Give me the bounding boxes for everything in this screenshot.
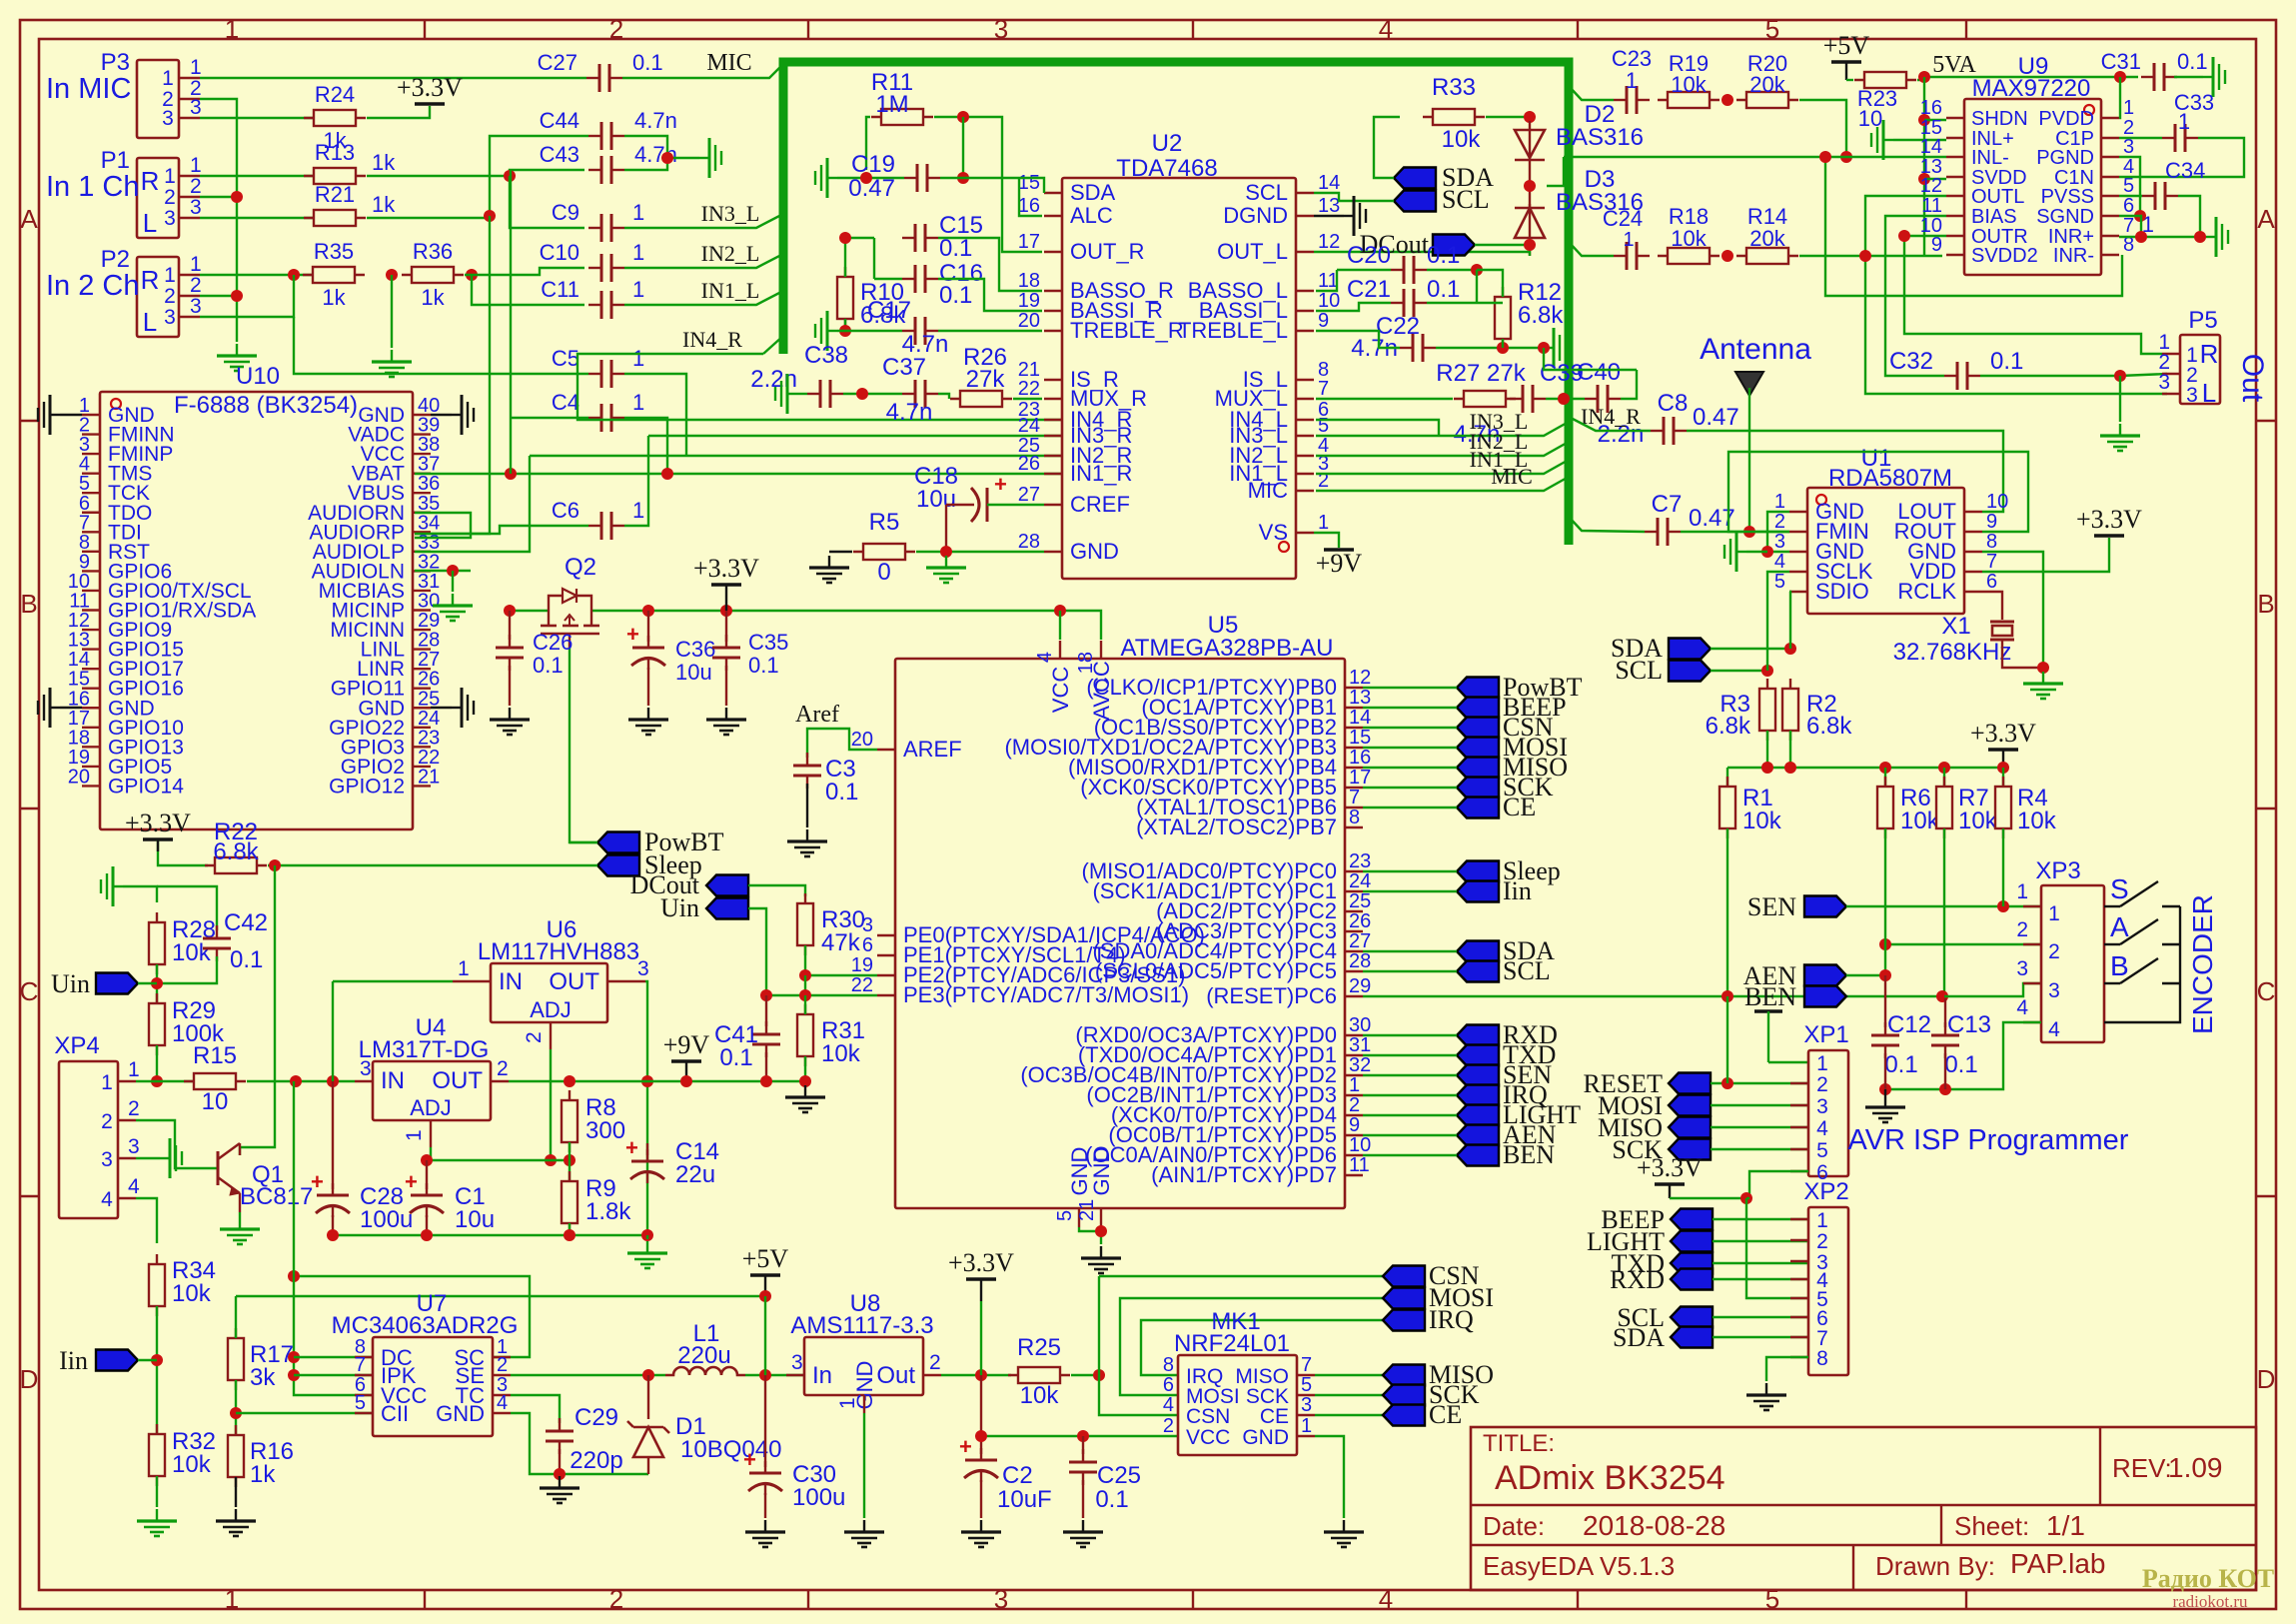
- svg-text:4.7n: 4.7n: [634, 108, 677, 133]
- svg-text:1k: 1k: [421, 285, 445, 310]
- resistor R29: [156, 993, 158, 1055]
- capacitor C13: [1944, 998, 1946, 1027]
- junction: [1784, 762, 1796, 774]
- wire R35/R36 mid to ground: [391, 275, 393, 348]
- svg-text:L: L: [143, 307, 157, 337]
- capacitor C41: [765, 995, 767, 1026]
- junction: [1722, 250, 1733, 262]
- resistor R18: [1658, 255, 1720, 257]
- resistor R33: [1423, 116, 1485, 118]
- svg-text:1: 1: [1774, 491, 1785, 513]
- wire +3.3V to XP2 feed: [1669, 1184, 1671, 1198]
- wire PC6 long row to encoder area: [1363, 995, 1942, 997]
- svg-text:2: 2: [2016, 918, 2028, 941]
- resistor R11: [871, 116, 933, 118]
- svg-text:BEN: BEN: [1503, 1140, 1555, 1169]
- wire OUTR down to P5 pin1: [1904, 236, 2162, 354]
- svg-text:C26: C26: [533, 630, 573, 655]
- svg-text:R13: R13: [315, 140, 355, 165]
- junction: [386, 269, 398, 281]
- capacitor C14: [646, 1143, 648, 1155]
- svg-text:OUT_L: OUT_L: [1217, 239, 1288, 264]
- svg-text:4: 4: [1816, 1117, 1828, 1140]
- svg-text:RXD: RXD: [1610, 1265, 1665, 1294]
- wire rail to ground: [646, 1235, 648, 1239]
- svg-text:LM117HVH883: LM117HVH883: [478, 938, 639, 965]
- wire SGND to INR+ row: [2119, 216, 2141, 237]
- svg-text:26: 26: [1349, 910, 1371, 932]
- svg-text:1: 1: [225, 1584, 239, 1614]
- encoder switch B: [2104, 982, 2120, 984]
- svg-text:2: 2: [609, 1584, 623, 1614]
- svg-text:2: 2: [164, 285, 176, 308]
- connector XP1: [1808, 1050, 1848, 1176]
- net flag SDA: [1394, 168, 1436, 189]
- ground: [391, 350, 393, 362]
- net flag BEN: [1457, 1145, 1499, 1166]
- diode D1 10BQ040: [647, 1375, 649, 1419]
- IC U7 MC34063ADR2G: [373, 1337, 493, 1436]
- wire GND pin4 to bottom row: [511, 1413, 648, 1474]
- junction: [680, 1075, 692, 1087]
- svg-text:F-6888 (BK3254): F-6888 (BK3254): [174, 392, 358, 419]
- svg-text:C24: C24: [1603, 206, 1643, 231]
- svg-text:4: 4: [2016, 996, 2028, 1019]
- svg-text:R35: R35: [314, 239, 354, 264]
- wire XP1 pin1: [1768, 1061, 1808, 1063]
- ground: [239, 1217, 241, 1229]
- wire BIAS down to C32 row: [1885, 216, 1946, 376]
- svg-text:(SCL0/ADC5/PTCY)PC5: (SCL0/ADC5/PTCY)PC5: [1095, 958, 1337, 983]
- net flag SCL: [1457, 961, 1499, 982]
- wire CE: [1363, 807, 1457, 809]
- wire R25 right to CSN node: [1071, 1374, 1099, 1376]
- wire U6 OUT down right rail: [645, 981, 647, 1235]
- svg-text:IN: IN: [381, 1067, 405, 1094]
- svg-text:AVR ISP Programmer: AVR ISP Programmer: [1848, 1124, 2129, 1156]
- junction: [2194, 231, 2206, 243]
- capacitor C36: [647, 611, 649, 642]
- svg-text:PAP.lab: PAP.lab: [2010, 1548, 2105, 1579]
- wire SVDD2 stub link: [1924, 255, 1942, 257]
- junction: [1938, 762, 1950, 774]
- svg-text:1: 1: [1816, 1052, 1828, 1075]
- wire R10 bottom to ground/C17 row: [844, 319, 846, 331]
- svg-text:DGND: DGND: [1223, 203, 1288, 228]
- svg-text:R5: R5: [869, 509, 900, 536]
- wire IN1_L row to bus: [1316, 460, 1569, 474]
- svg-text:6.8k: 6.8k: [1806, 713, 1852, 740]
- svg-text:3: 3: [994, 14, 1008, 44]
- svg-text:1/1: 1/1: [2046, 1510, 2085, 1541]
- svg-text:22: 22: [851, 974, 873, 996]
- junction: [1095, 1225, 1107, 1237]
- svg-text:SDIO: SDIO: [1815, 579, 1869, 604]
- junction: [1879, 762, 1891, 774]
- junction: [288, 269, 300, 281]
- svg-text:P3: P3: [101, 49, 130, 76]
- wire U10 pin25 GND to ground: [431, 707, 452, 709]
- wire Q2 gate down to PowBT net: [570, 648, 599, 842]
- svg-text:XP4: XP4: [54, 1032, 99, 1059]
- wire SDA/SCL junction to INL- row: [1529, 185, 1531, 187]
- svg-text:0.1: 0.1: [719, 1044, 752, 1071]
- svg-text:6: 6: [1986, 571, 1997, 593]
- svg-text:3: 3: [1816, 1095, 1828, 1118]
- IC U5 ATMEGA328PB-AU: [895, 659, 1345, 1208]
- svg-text:SCL: SCL: [1442, 185, 1490, 214]
- wire U1 GND pins to ground: [1767, 512, 1789, 552]
- net flag BEEP: [1671, 1209, 1713, 1230]
- svg-text:4: 4: [1379, 1584, 1393, 1614]
- wire SDA: [1363, 950, 1457, 952]
- svg-text:16: 16: [1349, 747, 1371, 769]
- ground: [647, 708, 649, 720]
- wire R16 to ground: [235, 1477, 237, 1507]
- svg-text:2: 2: [164, 186, 176, 209]
- capacitor C21: [1391, 302, 1404, 304]
- resistor R24: [304, 117, 366, 119]
- junction: [1879, 1083, 1891, 1095]
- svg-text:10: 10: [1858, 106, 1882, 131]
- wire R7 bottom to PC6/BEN net: [1943, 828, 1945, 996]
- capacitor C12: [1884, 975, 1886, 1027]
- wire SCL row: [1711, 670, 1767, 672]
- svg-text:C31: C31: [2101, 49, 2141, 74]
- svg-text:26: 26: [1018, 453, 1040, 475]
- wire R11 right to OUT_R column: [934, 117, 1042, 252]
- capacitor C33 (C1P-C1N loop): [2119, 137, 2162, 139]
- svg-text:4: 4: [1379, 14, 1393, 44]
- capacitor C9: [588, 227, 601, 229]
- svg-text:0.1: 0.1: [939, 282, 972, 309]
- wire C6 right up to IN3_R row: [624, 436, 648, 526]
- svg-text:In MIC: In MIC: [46, 73, 131, 105]
- wire XP3 pin4 to C12/C13 ground rail: [1885, 1022, 2041, 1089]
- svg-text:1: 1: [458, 957, 470, 980]
- wire C5 row left: [294, 317, 588, 374]
- svg-text:SCL: SCL: [1615, 656, 1663, 685]
- wire SCL row: [1713, 1316, 1808, 1318]
- svg-text:10u: 10u: [455, 1206, 495, 1233]
- svg-text:R24: R24: [315, 82, 355, 107]
- svg-text:0.1: 0.1: [230, 946, 263, 973]
- junction: [1722, 1077, 1733, 1089]
- wire MOSI loop: [1120, 1298, 1383, 1395]
- svg-text:R: R: [2200, 339, 2219, 369]
- U5 top pins VCC AVCC: [1059, 641, 1061, 659]
- net flag SCK: [1383, 1385, 1425, 1406]
- svg-text:10k: 10k: [1958, 808, 1998, 834]
- wire SEN row to XP3 pin1: [1846, 905, 2041, 907]
- svg-text:INL-: INL-: [1971, 147, 2009, 169]
- wire R31 bottom rail: [686, 1056, 805, 1081]
- junction: [1819, 151, 1831, 163]
- svg-text:10k: 10k: [1900, 808, 1940, 834]
- svg-text:R27 27k: R27 27k: [1436, 360, 1526, 387]
- svg-text:OUT: OUT: [432, 1067, 483, 1094]
- svg-text:Uin: Uin: [51, 969, 90, 998]
- svg-text:C20: C20: [1347, 242, 1391, 269]
- svg-text:B: B: [20, 589, 37, 619]
- wire IRQ: [1363, 1094, 1457, 1096]
- wire Sleep: [1363, 870, 1457, 872]
- capacitor C2: [980, 1375, 982, 1454]
- junction: [231, 191, 243, 203]
- wire DC pin8 row: [294, 1356, 373, 1358]
- svg-text:0.1: 0.1: [1884, 1051, 1917, 1078]
- svg-text:radiokot.ru: radiokot.ru: [2172, 1592, 2248, 1611]
- svg-text:1: 1: [2178, 109, 2190, 134]
- wire bus tap to C24: [1569, 242, 1614, 256]
- junction: [1879, 969, 1891, 981]
- svg-text:+5V: +5V: [1823, 31, 1870, 60]
- svg-text:ATMEGA328PB-AU: ATMEGA328PB-AU: [1121, 635, 1334, 662]
- wire R5 right to GND pin28: [916, 551, 1044, 553]
- svg-text:4: 4: [1163, 1394, 1174, 1416]
- wire AEN: [1363, 1134, 1457, 1136]
- wire C9 to bus IN3_L tap: [624, 214, 783, 228]
- svg-text:3: 3: [2048, 979, 2060, 1002]
- wire P2.2 to gnd net: [200, 295, 237, 297]
- svg-text:3: 3: [2016, 957, 2028, 980]
- svg-text:3k: 3k: [250, 1364, 276, 1391]
- svg-text:GPIO14: GPIO14: [108, 775, 184, 798]
- svg-text:2: 2: [1816, 1230, 1828, 1253]
- capacitor C27: [586, 77, 599, 79]
- svg-text:C25: C25: [1097, 1462, 1141, 1489]
- svg-text:1: 1: [162, 67, 174, 90]
- resistor R26: [950, 398, 1012, 400]
- wire C17 to TREBLE_R: [837, 330, 902, 332]
- wire MUX_L to R27: [1316, 398, 1453, 400]
- resistor R8: [569, 1090, 571, 1152]
- svg-text:R21: R21: [315, 182, 355, 207]
- svg-text:1: 1: [1816, 1209, 1828, 1232]
- IC U1 RDA5807M: [1807, 488, 1964, 614]
- wire PE2 stub: [804, 975, 806, 995]
- svg-text:0: 0: [877, 559, 890, 586]
- resistor R31: [804, 1004, 806, 1066]
- svg-text:15: 15: [1018, 172, 1040, 194]
- net flag SEN: [1457, 1065, 1499, 1086]
- ground: [699, 157, 709, 159]
- svg-text:0.1: 0.1: [748, 653, 779, 678]
- junction: [760, 1075, 772, 1087]
- wire LIGHT row: [1713, 1240, 1808, 1242]
- junction: [230, 1407, 242, 1419]
- svg-text:3: 3: [791, 1351, 803, 1374]
- wire R34 to Iin node: [156, 1306, 158, 1436]
- svg-text:ADJ: ADJ: [530, 997, 572, 1022]
- wire RXD: [1363, 1034, 1457, 1036]
- junction: [839, 232, 851, 244]
- svg-text:A: A: [2257, 204, 2275, 234]
- wire MOSI row: [1711, 1104, 1808, 1106]
- wire CSN flag row: [1099, 1275, 1383, 1277]
- svg-text:SDA: SDA: [1613, 1323, 1665, 1352]
- svg-text:TDA7468: TDA7468: [1116, 155, 1217, 182]
- capacitor C31: [2141, 76, 2154, 78]
- junction: [1840, 151, 1852, 163]
- net flag Uin: [96, 973, 138, 994]
- svg-text:6: 6: [862, 934, 873, 956]
- svg-text:TITLE:: TITLE:: [1483, 1430, 1555, 1457]
- power +3.3V: [1988, 748, 2018, 752]
- svg-text:SCL: SCL: [1503, 956, 1551, 985]
- wire ROUT loop: [1728, 452, 2028, 532]
- wire R3 to +3.3V rail: [1766, 731, 1768, 768]
- wire RXD row: [1713, 1278, 1808, 1280]
- svg-text:C11: C11: [541, 277, 579, 302]
- wire SCL: [1363, 970, 1457, 972]
- wire MISO row: [1315, 1374, 1383, 1376]
- diode D3 BAS316: [1529, 204, 1531, 256]
- wire R1 bottom to PC6 row: [1726, 828, 1728, 996]
- svg-text:ALC: ALC: [1070, 203, 1113, 228]
- svg-text:4: 4: [101, 1188, 113, 1211]
- junction: [799, 989, 811, 1001]
- svg-text:10k: 10k: [1671, 226, 1707, 251]
- wire L1 right to U8 In: [745, 1374, 804, 1376]
- capacitor C1: [426, 1160, 428, 1189]
- svg-text:47k: 47k: [821, 929, 861, 956]
- wire IN2_L row to bus: [1316, 442, 1569, 456]
- wire R6 bottom: [1884, 828, 1886, 975]
- junction: [1784, 643, 1796, 655]
- ground: [725, 708, 727, 720]
- capacitor C19: [904, 177, 917, 179]
- wire TC to C29: [511, 1395, 560, 1423]
- svg-text:SVDD2: SVDD2: [1971, 245, 2038, 267]
- svg-text:9: 9: [1349, 1114, 1360, 1136]
- resistor R36: [402, 274, 464, 276]
- wire R22 to Sleep flag: [268, 864, 597, 866]
- junction: [1471, 264, 1483, 276]
- net flag RXD: [1457, 1025, 1499, 1046]
- svg-text:220u: 220u: [677, 1342, 730, 1369]
- svg-text:300: 300: [585, 1117, 625, 1144]
- svg-text:AREF: AREF: [903, 737, 962, 762]
- wire INL- row to diode column: [1547, 157, 1564, 186]
- svg-text:10: 10: [202, 1088, 229, 1115]
- junction: [642, 1369, 654, 1381]
- ground: [452, 594, 454, 606]
- svg-text:1: 1: [1626, 68, 1638, 93]
- encoder switch S: [2104, 905, 2120, 907]
- svg-text:0.1: 0.1: [1944, 1051, 1977, 1078]
- svg-text:R: R: [141, 265, 160, 295]
- resistor R9: [569, 1171, 571, 1233]
- svg-text:14: 14: [1349, 707, 1371, 729]
- net flag PowBT: [597, 832, 639, 853]
- wire U5 GND pins to ground: [1079, 1227, 1101, 1244]
- svg-text:24: 24: [1018, 415, 1040, 437]
- svg-text:C34: C34: [2165, 158, 2205, 183]
- wire P2.1 to R35 row: [200, 274, 312, 276]
- svg-text:Iin: Iin: [59, 1346, 88, 1375]
- wire SDA row: [1711, 648, 1788, 650]
- capacitor C44: [588, 135, 601, 137]
- svg-text:RDA5807M: RDA5807M: [1828, 465, 1952, 492]
- junction: [564, 1229, 575, 1241]
- power +3.3V: [711, 583, 741, 587]
- resistor R10: [844, 267, 846, 329]
- wire X1 bottom to ground: [2002, 640, 2043, 668]
- power +9V: [671, 1059, 701, 1063]
- svg-text:C13: C13: [1947, 1011, 1991, 1038]
- svg-text:1: 1: [632, 277, 644, 302]
- svg-text:C44: C44: [540, 108, 579, 133]
- wire VDD to +3.3V: [1982, 538, 2109, 572]
- svg-text:3: 3: [162, 107, 174, 130]
- svg-text:Out: Out: [876, 1362, 915, 1389]
- svg-text:IRQ: IRQ: [1429, 1305, 1474, 1334]
- svg-text:PVSS: PVSS: [2041, 186, 2094, 208]
- svg-text:21: 21: [1076, 1199, 1098, 1221]
- svg-text:5: 5: [2123, 175, 2134, 197]
- wire U8 Out to R25: [941, 1374, 1011, 1376]
- svg-text:5: 5: [1054, 1210, 1076, 1221]
- wire SCL flag to SCL pin14: [1314, 193, 1394, 201]
- svg-text:IN1_R: IN1_R: [1070, 461, 1132, 486]
- net flag IRQ: [1383, 1310, 1425, 1331]
- wire C15 to BASSO_R: [938, 238, 1042, 291]
- svg-text:5VA: 5VA: [1932, 52, 1976, 78]
- capacitor C42: [157, 886, 217, 930]
- svg-text:Out: Out: [2236, 354, 2269, 403]
- junction: [1761, 762, 1773, 774]
- IC U8 AMS1117-3.3: [804, 1337, 923, 1395]
- wire SCK: [1363, 787, 1457, 789]
- wire C44 left vertical: [490, 136, 588, 216]
- svg-text:3: 3: [2158, 371, 2170, 394]
- wire SHDN tap: [1924, 119, 1946, 121]
- svg-text:IN2_L: IN2_L: [701, 241, 760, 266]
- svg-text:10k: 10k: [172, 1280, 212, 1307]
- net flag SCL: [1394, 191, 1436, 212]
- wire RESET row: [1711, 1082, 1808, 1084]
- ground: [452, 414, 462, 416]
- svg-text:2: 2: [1774, 511, 1785, 533]
- ground: [1082, 1520, 1084, 1532]
- wire PVDD up to 5VA rail: [2119, 77, 2120, 118]
- wire C4 left vertical x511: [511, 417, 588, 419]
- junction: [545, 1154, 557, 1166]
- svg-text:(RESET)PC6: (RESET)PC6: [1206, 983, 1337, 1008]
- power +3.3V: [143, 837, 173, 841]
- junction: [957, 111, 969, 123]
- net flag IRQ: [1457, 1085, 1499, 1106]
- wire XP3 pin2 row: [1885, 943, 2041, 945]
- IC U6 LM117HVH883: [491, 963, 607, 1022]
- svg-text:1: 1: [1349, 1074, 1360, 1096]
- svg-text:3: 3: [101, 1148, 113, 1171]
- connector XP3: [2041, 885, 2104, 1042]
- diode D2 BAS316: [1529, 121, 1531, 169]
- svg-text:OUT: OUT: [549, 968, 599, 995]
- svg-text:U2: U2: [1152, 130, 1183, 157]
- encoder switch A: [2104, 943, 2120, 945]
- capacitor C16: [902, 278, 915, 280]
- junction: [1918, 114, 1930, 126]
- svg-text:13: 13: [1318, 195, 1340, 217]
- capacitor C43: [588, 169, 601, 171]
- svg-text:8: 8: [1349, 807, 1360, 828]
- svg-text:C32: C32: [1889, 348, 1933, 375]
- wire ALC pin16 link: [1019, 178, 1042, 216]
- net flag SCL: [1671, 1307, 1713, 1328]
